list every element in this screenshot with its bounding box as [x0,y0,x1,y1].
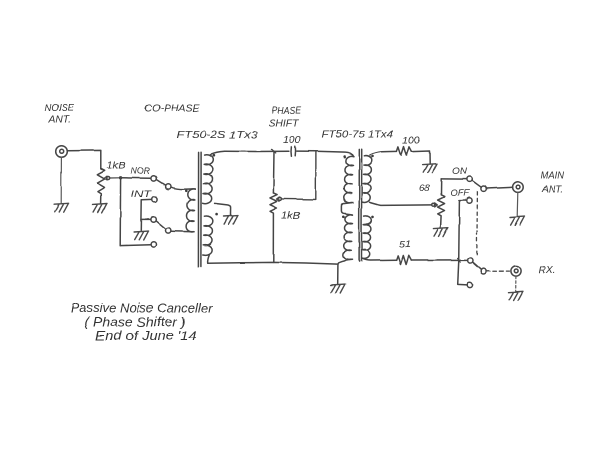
wiper of R2 [277,151,316,201]
label 100 (cap) [283,135,301,146]
ground T2 primary [331,284,346,293]
svg-text:FT50-75 1Tx4: FT50-75 1Tx4 [322,129,394,141]
svg-text:ANT.: ANT. [541,185,563,196]
wire resistor 51 to SW2 [411,259,467,261]
label PHASE SHIFT [269,106,302,130]
label 68 [419,183,431,194]
svg-text:68: 68 [419,183,431,194]
svg-text:1kB: 1kB [282,211,301,222]
svg-text:SHIFT: SHIFT [269,119,300,130]
junction tick phase tap [272,149,276,153]
svg-text:INT: INT [131,189,153,200]
svg-text:PHASE: PHASE [272,106,302,117]
label NOISE ANT. [45,103,75,126]
wire T2 center tap to R3 wiper [370,202,432,205]
transformer T2 primary lower winding [343,214,353,259]
gang link dashed [476,192,479,258]
phase dot T1 secondary top [213,154,216,157]
label FT50-2S 1Tx3 [177,129,258,141]
resistor 100 [396,147,411,156]
wire J1 to R1 top [68,150,101,168]
transformer T1 core [198,152,201,267]
label MAIN ANT. [541,171,565,196]
phase dot T2 primary top [343,155,346,158]
junction tick at OFF line crossing [458,258,461,262]
wire T2 secondary top to resistor 100 [370,151,397,155]
svg-text:( Phase Shifter ): ( Phase Shifter ) [85,316,186,330]
svg-text:100: 100 [402,136,420,147]
ground below R3 [433,228,448,237]
resistor 51 [396,256,411,265]
ground below R1 [93,204,108,213]
dashed wire pole to RX [486,270,510,272]
svg-text:ANT.: ANT. [47,115,71,126]
wire bottom to switch contact C6 [120,244,151,247]
label 100 (resistor) [402,136,420,147]
svg-text:OFF: OFF [451,188,471,199]
node A junction dot [119,176,122,179]
wire C2 to T1 primary top [171,187,196,189]
svg-text:NOR: NOR [131,166,151,177]
svg-text:CO-PHASE: CO-PHASE [145,103,201,115]
svg-text:MAIN: MAIN [541,171,565,182]
svg-text:End of June '14: End of June '14 [96,329,197,343]
switch SW2 contact lower2 [467,282,472,287]
wire phase tap vertical [272,151,275,193]
switch SW1 contact C4 [151,217,156,222]
wiper of R1 [104,176,119,180]
wire node A down [119,178,121,246]
phase dot T2 primary lower [342,216,345,219]
wire top rail T1 to cap [225,150,289,152]
phase dot T2 secondary lower [371,216,374,219]
label FT50-75 1Tx4 [322,129,394,141]
transformer T2 secondary upper winding [362,156,371,203]
label 51 [399,240,411,251]
switch SW1 arm C1-C2 [156,180,165,186]
capacitor 100 plates [291,146,296,156]
switch SW1 contact C5 [166,228,171,233]
wire J1 down to ground [60,158,62,203]
wire SW2 pole to main antenna [486,187,512,188]
wire branch to C4 [142,218,151,220]
ground after resistor 100 [423,164,438,173]
switch SW2 pole bottom [481,269,486,274]
ground below J3 [509,291,524,300]
svg-text:Passive Noise Canceller: Passive Noise Canceller [71,302,214,316]
potentiometer R2 1kB [270,193,277,263]
transformer T2 core [359,149,362,261]
transformer T1 secondary lower winding [203,216,213,255]
transformer T1 primary winding [186,189,195,232]
switch SW1 arm C4-C5 [156,221,166,229]
svg-text:FT50-2S 1Tx3: FT50-2S 1Tx3 [177,129,258,141]
switch SW2 arm bottom [472,262,481,270]
ground T1 center tap [224,216,239,225]
switch SW2 contact ON [467,177,472,182]
potentiometer R3 68 [438,179,445,227]
wire T2 primary bottom to ground [338,259,353,283]
label 1kB (R1) [107,161,126,172]
svg-text:ON: ON [452,166,467,177]
transformer T2 secondary lower winding [362,216,371,259]
wire resistor 100 to ground [412,151,430,163]
switch SW1 contact C2 [165,184,170,189]
label RX. [539,265,556,276]
switch SW2 arm top [472,181,481,188]
connector J1 noise antenna [56,146,68,158]
switch SW1 contact C6 [151,242,156,247]
svg-text:1kB: 1kB [107,161,126,172]
transformer T1 secondary upper winding [203,154,214,203]
connector J2 main antenna [513,182,524,193]
ground below J1 [54,203,69,212]
wire cap to T2 [297,151,354,156]
svg-text:100: 100 [283,135,301,146]
label NOR [131,166,151,177]
wire T1 secondary bottom to rail [207,255,209,263]
wiper of R3 [432,203,438,207]
wire bottom rail [207,262,338,264]
transformer T2 primary upper winding [344,156,354,203]
wire OFF contact down [458,201,468,285]
wire J2 to ground [516,192,519,215]
connector J3 RX [511,266,521,276]
phase dot T2 secondary top [371,155,374,158]
switch SW1 contact C1 [151,176,156,181]
svg-text:NOISE: NOISE [45,103,75,114]
title Passive Noise Canceller [71,302,214,344]
svg-text:51: 51 [399,240,411,251]
switch SW2 contact OFF [467,198,472,203]
label OFF [451,188,471,199]
svg-text:RX.: RX. [539,265,556,276]
wire C5 to T1 primary bottom [171,230,194,232]
switch SW1 contact C3 [152,197,157,202]
wire T2 primary jog [341,203,353,215]
phase dot T1 secondary lower [215,213,218,216]
wire T2 secondary bottom to resistor 51 [362,259,396,261]
switch SW2 contact lower1 [467,258,472,263]
potentiometer R1 1kB [97,169,104,203]
wire C3 to ground drop [141,199,151,230]
wire R3 top to ON contact [441,178,467,180]
label 1kB (R2) [282,211,301,222]
label ON [452,166,467,177]
wire J3 to ground [515,276,517,291]
switch SW2 pole top [481,186,486,191]
label CO-PHASE [145,103,201,115]
ground below J2 [510,216,525,225]
label INT [131,189,153,200]
wire node A to switch contact NOR [121,177,151,179]
wire T1 secondary top to rail [210,151,224,154]
wire T1 center tap [215,203,231,215]
phase dot T1 primary [185,190,188,193]
ground below INT wire [134,231,149,240]
